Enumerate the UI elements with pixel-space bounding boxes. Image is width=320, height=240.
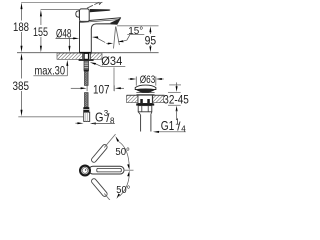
threaded shank bbox=[84, 61, 89, 70]
spray angle right arrow bbox=[118, 40, 124, 42]
shank through counter (dark) bbox=[84, 53, 89, 59]
spray angle 15 deg ray bbox=[116, 27, 120, 46]
drain cap dark underside bbox=[135, 89, 156, 93]
svg-text:32-45: 32-45 bbox=[163, 93, 189, 107]
svg-text:107: 107 bbox=[93, 83, 110, 97]
dimension 155 arrows bbox=[40, 10, 42, 17]
drain castellated nut bbox=[138, 106, 152, 112]
countertop cross-section hatch right bbox=[91, 53, 103, 59]
hose top band bbox=[84, 70, 89, 72]
dimension 32-45 bbox=[169, 84, 181, 86]
extension line 188 (top of open lever) bbox=[21, 2, 102, 4]
svg-text:50°: 50° bbox=[116, 185, 130, 196]
lever front tab bbox=[76, 11, 80, 18]
G 3/8 thread dimension arrows bbox=[75, 122, 78, 124]
lever open phantom lines bbox=[87, 5, 93, 8]
svg-text:188: 188 bbox=[13, 20, 29, 34]
countertop cross-section hatch left bbox=[57, 53, 83, 59]
dimension dia 63 bbox=[135, 77, 137, 86]
dimension 95 bbox=[149, 32, 151, 35]
drain taper bbox=[138, 112, 152, 115]
faucet body and spout outline bbox=[80, 18, 121, 53]
dimension 188 arrows bbox=[21, 3, 23, 10]
dia48 left-pointing arrow at body right edge bbox=[92, 36, 98, 38]
svg-text:max.30: max.30 bbox=[35, 64, 66, 78]
svg-text:155: 155 bbox=[33, 25, 48, 39]
svg-text:95: 95 bbox=[145, 34, 157, 48]
drain flange bbox=[136, 92, 154, 94]
lever closed (dark bar) bbox=[90, 9, 111, 12]
drain countertop line bbox=[127, 94, 165, 96]
dia48 down arrow to countertop bbox=[69, 39, 71, 47]
lever pivot cap bbox=[80, 9, 90, 22]
top view: lever horizontal bbox=[89, 166, 124, 174]
dimension 188 vertical line bbox=[21, 3, 23, 46]
dimension 385 arrows bbox=[21, 53, 23, 60]
extension line 155 (top of closed lever) bbox=[41, 8, 80, 10]
top view: angular arc upper bbox=[118, 141, 130, 168]
svg-text:G1: G1 bbox=[161, 119, 175, 133]
drain counter hatch right bbox=[153, 96, 164, 103]
drain body in hole bbox=[138, 95, 152, 103]
spray angle left arrow bbox=[106, 42, 111, 44]
hose nut bbox=[84, 112, 90, 121]
dimension 385 vertical line bbox=[21, 60, 23, 111]
extension line spout outlet (95 top) bbox=[117, 25, 159, 27]
svg-text:8: 8 bbox=[110, 117, 115, 126]
top view: angular arc lower bbox=[120, 174, 130, 197]
spout inner top line bbox=[80, 20, 119, 23]
extension line 385 bottom (hose end) bbox=[18, 116, 83, 118]
aerator (dark wedge at spout tip) bbox=[110, 18, 120, 24]
dia34 leader arrow to hole bbox=[95, 63, 102, 66]
braided hose bbox=[85, 71, 89, 85]
drain plug cap bbox=[135, 85, 156, 89]
svg-text:50°: 50° bbox=[115, 147, 129, 158]
svg-text:G: G bbox=[95, 110, 104, 124]
svg-text:385: 385 bbox=[13, 79, 30, 93]
drain locknut dark band bbox=[136, 103, 154, 105]
extension line from 15deg vertex down to 107 bbox=[113, 68, 115, 92]
hose ferrule bbox=[83, 107, 89, 112]
svg-text:Ø63: Ø63 bbox=[140, 74, 156, 86]
dimension 107 (spout projection) bbox=[86, 85, 88, 91]
top view: body circle bbox=[80, 166, 90, 176]
base gasket (dark) bbox=[80, 52, 91, 54]
dia48 right-pointing arrow to body left edge bbox=[72, 37, 74, 39]
top view: centerline right bbox=[124, 169, 134, 171]
washer bar under counter bbox=[79, 59, 94, 61]
leader to 15 deg label bbox=[127, 35, 130, 40]
max.30 leader up to counter underside bbox=[66, 65, 68, 76]
drain counter hatch left bbox=[127, 96, 138, 103]
spray angle vertical ray bbox=[114, 27, 116, 49]
top view: rotated lever upper (50 deg) bbox=[91, 133, 118, 209]
countertop line bbox=[17, 52, 159, 54]
drain tailpipe bbox=[140, 115, 142, 132]
dimension 155 vertical line bbox=[40, 16, 42, 47]
mounting hole edges bbox=[82, 53, 84, 59]
